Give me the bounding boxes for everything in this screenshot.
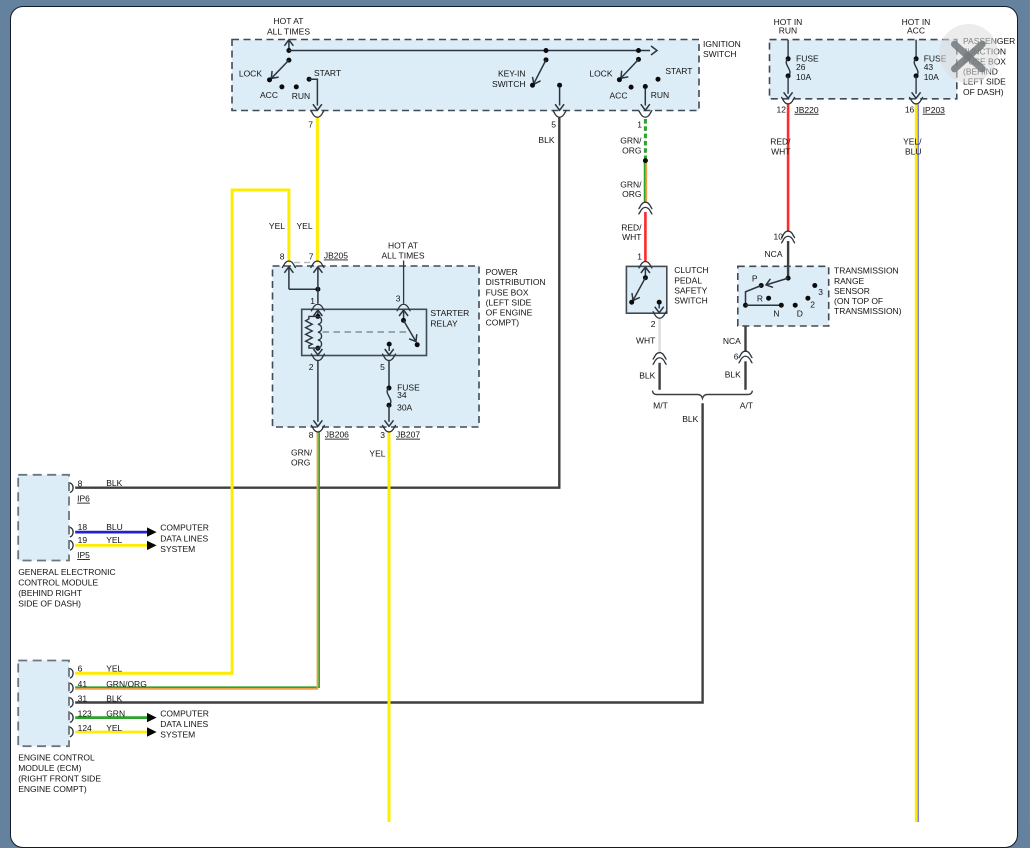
svg-text:YEL: YEL [106, 723, 122, 733]
svg-text:START: START [314, 68, 341, 78]
wire [787, 76, 789, 94]
junction dot at 788.1,58.8 [786, 56, 791, 61]
svg-text:SWITCH: SWITCH [703, 49, 737, 59]
wire [644, 268, 646, 278]
relay actuation dashed link [323, 331, 407, 333]
svg-text:RUN: RUN [292, 91, 310, 101]
svg-text:GRN/ORG: GRN/ORG [106, 679, 147, 689]
power distribution fuse box [273, 266, 480, 427]
close button [939, 24, 998, 83]
clutch pedal safety switch box [626, 266, 666, 313]
pin arc at 70.3,702.5 [70, 698, 73, 708]
wire BLK ignition pin5 to GECM pin8 [75, 118, 559, 488]
junction dot at 389,405.2 [387, 403, 392, 408]
svg-text:3: 3 [818, 287, 823, 297]
svg-text:A/T: A/T [740, 401, 753, 411]
contact ACC2 [629, 85, 634, 90]
arrowhead at 317.9,266.8 [313, 267, 322, 273]
wire RED/WHT connector to clutch pin1 [644, 212, 647, 261]
svg-text:(BEHIND RIGHT: (BEHIND RIGHT [18, 588, 82, 598]
svg-text:IP6: IP6 [77, 494, 90, 504]
wire [767, 278, 788, 285]
wire [403, 311, 405, 321]
svg-text:8: 8 [309, 430, 314, 440]
pin 8 connector JB205 [282, 261, 295, 268]
svg-text:ORG: ORG [622, 189, 641, 199]
wire join pin8 to pin7 line [289, 288, 318, 290]
arrowhead at 788.1,98.3 [784, 92, 793, 98]
svg-text:JB220: JB220 [795, 105, 819, 115]
arrowhead at 645.4,267 [641, 267, 650, 273]
svg-text:COMPUTER: COMPUTER [160, 709, 209, 719]
wire YEL ECM pin124 [75, 731, 147, 734]
arrowhead at 317.4,110.2 [313, 104, 322, 110]
inline connector GRN-RED [639, 202, 652, 214]
svg-text:N: N [773, 309, 779, 319]
arrowhead at 657,50.5 [651, 46, 657, 55]
contact R [766, 296, 771, 301]
svg-text:(ON TOP OF: (ON TOP OF [834, 296, 883, 306]
wire [288, 268, 290, 290]
svg-text:RELAY: RELAY [430, 318, 458, 328]
inline connector WHT-BLK [653, 353, 666, 365]
svg-text:RUN: RUN [779, 25, 797, 35]
arrowhead at 317.9,426.3 [313, 420, 322, 426]
junction dot at 532.5,85.2 [530, 83, 535, 88]
wire [317, 268, 319, 304]
junction dot GRN/ORG [643, 158, 648, 163]
wire NCA TRS connector [787, 241, 789, 278]
junction dot at 631.7,302.2 [629, 300, 634, 305]
svg-text:BLK: BLK [639, 371, 655, 381]
fuse element at 788.1,58.8 [786, 59, 790, 76]
relay pin 3 connector [397, 304, 410, 311]
svg-text:BLK: BLK [106, 478, 122, 488]
svg-text:D: D [797, 309, 803, 319]
svg-text:ALL TIMES: ALL TIMES [267, 26, 310, 36]
svg-text:GRN: GRN [106, 709, 125, 719]
svg-text:43: 43 [924, 62, 934, 72]
wire [318, 316, 322, 348]
svg-text:HOT AT: HOT AT [388, 240, 418, 250]
wire [75, 432, 317, 689]
wire BLK TRS to brace AT [744, 361, 746, 390]
wire [306, 316, 318, 348]
svg-text:ENGINE CONTROL: ENGINE CONTROL [18, 752, 95, 762]
contact 2 [805, 296, 810, 301]
svg-text:18: 18 [78, 522, 88, 532]
svg-text:YEL/: YEL/ [903, 136, 922, 146]
pin 1 connector [639, 261, 652, 268]
svg-text:GRN/: GRN/ [620, 179, 642, 189]
wire [645, 161, 647, 203]
wire [388, 405, 390, 422]
svg-text:COMPT): COMPT) [486, 318, 520, 328]
svg-text:ORG: ORG [622, 146, 641, 156]
svg-text:1: 1 [637, 252, 642, 262]
wire [634, 278, 646, 300]
contact RUN [294, 84, 299, 89]
wire [644, 89, 646, 106]
ignition switch box [232, 40, 699, 111]
svg-text:31: 31 [78, 694, 88, 704]
svg-text:WHT: WHT [771, 146, 790, 156]
svg-text:123: 123 [78, 709, 92, 719]
pin arc at 70.3,732 [70, 727, 73, 737]
wire [658, 304, 660, 309]
svg-text:2: 2 [651, 319, 656, 329]
svg-text:2: 2 [810, 300, 815, 310]
wire [388, 346, 390, 351]
svg-text:RUN: RUN [651, 90, 669, 100]
arrowhead at 317.9,355 [313, 349, 322, 355]
svg-text:7: 7 [309, 252, 314, 262]
svg-text:FUSE BOX: FUSE BOX [486, 287, 529, 297]
wire [404, 320, 416, 340]
arrowhead at 533.9,84.2 [530, 77, 541, 86]
junction dot at 916.1,58.8 [914, 56, 919, 61]
relay output contact [387, 342, 392, 347]
arrowhead at 416,341.6 [409, 334, 420, 344]
wire YEL GECM pin19 [75, 544, 147, 547]
close button X stroke 2 [955, 44, 983, 69]
svg-text:BLK: BLK [725, 370, 741, 380]
pin arc at 70.3,717.6 [70, 713, 73, 723]
svg-text:3: 3 [380, 430, 385, 440]
svg-text:LOCK: LOCK [589, 69, 612, 79]
arrowhead at 659.2,312.7 [655, 307, 664, 313]
svg-text:8: 8 [78, 479, 83, 489]
svg-text:TRANSMISSION): TRANSMISSION) [834, 306, 902, 316]
contact LOCK2 [617, 77, 622, 82]
svg-text:OF DASH): OF DASH) [963, 87, 1004, 97]
arrowhead at 620.9,78.2 [618, 71, 629, 82]
svg-text:YEL: YEL [369, 449, 385, 459]
junction dot at 645.4,277.7 [643, 275, 648, 280]
pin 2 connector [653, 312, 666, 319]
junction dot at 638.5,59.4 [636, 57, 641, 62]
contact LOCK [267, 77, 272, 82]
svg-text:26: 26 [796, 62, 806, 72]
svg-text:ACC: ACC [610, 90, 628, 100]
wire [559, 87, 561, 106]
svg-text:5: 5 [380, 362, 385, 372]
svg-text:BLK: BLK [538, 135, 554, 145]
connector tie dashes [294, 262, 312, 264]
pin 8 arc [70, 483, 73, 493]
svg-text:P: P [752, 274, 758, 284]
pin 8 JB206 connector [311, 425, 324, 432]
svg-text:BLK: BLK [106, 694, 122, 704]
svg-text:CLUTCH: CLUTCH [674, 265, 708, 275]
svg-text:34: 34 [397, 390, 407, 400]
svg-text:GRN/: GRN/ [291, 448, 313, 458]
svg-text:CONTROL MODULE: CONTROL MODULE [18, 577, 98, 587]
svg-text:YEL: YEL [269, 221, 285, 231]
arrowhead at 766,284.9 [765, 279, 773, 289]
junction dot at 288.9,50.5 [286, 48, 291, 53]
wire YEL/BLU IP203 down [915, 104, 918, 822]
fuse 26 [787, 40, 789, 59]
wire [317, 361, 319, 422]
arrowhead at 633,300.5 [629, 293, 640, 303]
svg-text:10A: 10A [924, 72, 939, 82]
relay pin 1 connector [311, 304, 324, 311]
wire RED/WHT JB220 down [787, 104, 790, 232]
svg-text:41: 41 [78, 679, 88, 689]
wire [272, 60, 289, 78]
junction dot at 317.9,348.1 [315, 346, 320, 351]
wire [388, 361, 390, 388]
junction dot at 659.2,302.2 [657, 300, 662, 305]
contact ACC [279, 84, 284, 89]
wire [622, 59, 639, 77]
pin 5 connector [553, 111, 566, 118]
key-in switch [544, 48, 549, 53]
node top feed [288, 41, 290, 51]
svg-text:IP203: IP203 [923, 105, 945, 115]
svg-text:PEDAL: PEDAL [674, 275, 702, 285]
wire NCA TRS pin6 [744, 326, 746, 352]
svg-text:DATA LINES: DATA LINES [160, 533, 208, 543]
svg-text:LOCK: LOCK [239, 69, 262, 79]
contact START2 [656, 77, 661, 82]
arrow computer data lines 4 [147, 727, 157, 736]
arrow computer data lines 3 [147, 713, 157, 722]
passenger junction fuse box [770, 40, 957, 99]
contact N [779, 303, 784, 308]
arrowhead at 403.6,310 [399, 310, 408, 316]
arrowhead at 271.3,78.4 [268, 71, 279, 82]
svg-text:3: 3 [396, 294, 401, 304]
svg-text:30A: 30A [397, 402, 412, 412]
svg-text:YEL: YEL [106, 535, 122, 545]
svg-text:BLK: BLK [682, 414, 698, 424]
svg-text:8: 8 [280, 252, 285, 262]
switch3 lever [636, 48, 641, 53]
svg-text:YEL: YEL [297, 221, 313, 231]
wire YEL ignition pin7 to JB205 pin7 [316, 118, 319, 263]
svg-text:2: 2 [309, 362, 314, 372]
wire GRN/ORG JB206 to ECM pin41 [75, 432, 319, 687]
pin 3 JB207 connector [383, 425, 396, 432]
svg-text:NCA: NCA [723, 336, 741, 346]
svg-text:BLU: BLU [106, 522, 123, 532]
HOT AT ALL TIMES feed to relay pin 3 [403, 261, 405, 304]
svg-text:WHT: WHT [636, 336, 655, 346]
svg-text:5: 5 [551, 119, 556, 129]
pin arc at 70.3,673.3 [70, 669, 73, 679]
wire GRN/ORG junction to connector [644, 161, 646, 203]
svg-text:START: START [665, 66, 692, 76]
svg-text:1: 1 [310, 296, 315, 306]
wire BLU GECM pin18 [75, 531, 147, 534]
svg-text:DISTRIBUTION: DISTRIBUTION [486, 277, 546, 287]
svg-text:MODULE (ECM): MODULE (ECM) [18, 763, 81, 773]
svg-text:BLU: BLU [905, 146, 922, 156]
svg-text:RANGE: RANGE [834, 276, 865, 286]
svg-text:(RIGHT FRONT SIDE: (RIGHT FRONT SIDE [18, 773, 101, 783]
wire [746, 286, 762, 306]
pin arc at 70.3,688 [70, 683, 73, 693]
svg-text:10: 10 [774, 232, 784, 242]
pin 1 connector [639, 111, 652, 118]
wire [915, 76, 917, 94]
svg-text:ALL TIMES: ALL TIMES [382, 250, 425, 260]
wire [317, 311, 319, 317]
svg-text:HOT AT: HOT AT [274, 16, 304, 26]
wire YEL JB207 down offpage [388, 432, 391, 822]
arrowhead at 916.1,98.3 [912, 92, 921, 98]
svg-text:OF ENGINE: OF ENGINE [486, 308, 533, 318]
junction dot at 389,388 [387, 386, 392, 391]
svg-text:SENSOR: SENSOR [834, 286, 870, 296]
wire bus to right [289, 50, 650, 52]
svg-text:IGNITION: IGNITION [703, 39, 741, 49]
wire [746, 304, 782, 306]
relay pin 2 [317, 348, 319, 351]
wire BLK brace to ECM pin31 [75, 403, 702, 702]
contact D [793, 303, 798, 308]
svg-text:12: 12 [777, 105, 787, 115]
wire BLK clutch to brace MT [658, 363, 660, 390]
svg-text:SAFETY: SAFETY [674, 286, 707, 296]
svg-text:GRN/: GRN/ [620, 136, 642, 146]
arrow computer data lines 1 [147, 527, 157, 536]
svg-text:1: 1 [637, 119, 642, 129]
GECM box [18, 475, 69, 561]
svg-text:ENGINE COMPT): ENGINE COMPT) [18, 784, 87, 794]
svg-text:JB207: JB207 [396, 430, 420, 440]
pin connector at 317.9,356.3 [311, 354, 324, 361]
relay coil [315, 314, 320, 319]
svg-text:COMPUTER: COMPUTER [160, 523, 209, 533]
arrow computer data lines 2 [147, 541, 157, 550]
relay pin 5 and fuse 34 [383, 354, 396, 361]
starter relay box [302, 309, 427, 355]
svg-text:ACC: ACC [260, 90, 278, 100]
contact P [759, 283, 764, 288]
svg-text:SWITCH: SWITCH [492, 79, 526, 89]
junction dot at 317.9,289.2 [315, 287, 320, 292]
svg-text:POWER: POWER [486, 267, 518, 277]
svg-text:JB205: JB205 [324, 251, 348, 261]
svg-text:124: 124 [78, 723, 92, 733]
wire [309, 79, 317, 105]
wire [534, 60, 547, 84]
pin 7 connector [311, 111, 324, 118]
pin 18 arc [70, 527, 73, 537]
junction dot at 745.5,305.2 [743, 303, 748, 308]
pin connector at 788.1,99.7 [782, 97, 795, 104]
svg-text:ACC: ACC [907, 25, 925, 35]
svg-text:DATA LINES: DATA LINES [160, 719, 208, 729]
svg-text:M/T: M/T [653, 401, 668, 411]
wire YEL ECM pin6 up to JB205 pin8 [75, 190, 289, 673]
switch1 lever [286, 58, 291, 63]
pin connector at 916.1,99.7 [910, 97, 923, 104]
contact RUN2 to pin1 [643, 84, 648, 89]
contact START to pin7 [307, 77, 312, 82]
junction dot at 916.1,75.9 [914, 73, 919, 78]
svg-text:KEY-IN: KEY-IN [498, 68, 526, 78]
svg-text:GENERAL ELECTRONIC: GENERAL ELECTRONIC [18, 567, 115, 577]
arrowhead at 317.9,310 [313, 310, 322, 316]
junction dot at 417.2,344.7 [415, 342, 420, 347]
svg-text:6: 6 [78, 664, 83, 674]
wire WHT clutch pin2 [658, 318, 661, 353]
common node [786, 276, 791, 281]
svg-text:16: 16 [905, 105, 915, 115]
transmission range sensor box [738, 266, 829, 326]
wire GRN ECM pin123 [75, 716, 147, 719]
svg-text:SWITCH: SWITCH [674, 296, 708, 306]
arrowhead at 389.2,355 [385, 349, 394, 355]
svg-text:6: 6 [734, 352, 739, 362]
svg-text:RED/: RED/ [770, 136, 791, 146]
wire GRN dashed ignition pin1 [644, 119, 647, 161]
wire [917, 104, 919, 822]
svg-text:R: R [757, 294, 763, 304]
close button X stroke 1 [955, 44, 983, 69]
contact keyin out to pin5 [557, 83, 562, 88]
svg-text:YEL: YEL [106, 664, 122, 674]
svg-text:SYSTEM: SYSTEM [160, 544, 195, 554]
svg-text:SIDE OF DASH): SIDE OF DASH) [18, 598, 81, 608]
fuse 43 [915, 40, 917, 59]
pin 7 connector JB205 [311, 261, 324, 268]
svg-text:NCA: NCA [765, 249, 783, 259]
junction dot at 788.1,75.9 [786, 73, 791, 78]
svg-text:19: 19 [78, 535, 88, 545]
svg-text:10A: 10A [796, 72, 811, 82]
inline connector pin6 [739, 351, 752, 363]
arrowhead at 288.9,39.8 [284, 40, 293, 46]
pin 19 arc [70, 541, 73, 551]
svg-text:SYSTEM: SYSTEM [160, 730, 195, 740]
svg-text:(LEFT SIDE: (LEFT SIDE [486, 297, 532, 307]
svg-text:IP5: IP5 [77, 550, 90, 560]
svg-text:JB206: JB206 [325, 430, 349, 440]
svg-text:STARTER: STARTER [430, 308, 469, 318]
svg-text:TRANSMISSION: TRANSMISSION [834, 266, 899, 276]
svg-text:RED/: RED/ [621, 222, 642, 232]
entry arrows [284, 267, 293, 273]
svg-text:7: 7 [308, 119, 313, 129]
relay switch [401, 318, 406, 323]
brace MT AT [652, 391, 752, 399]
svg-text:ORG: ORG [291, 458, 310, 468]
arrowhead at 559.6,110.2 [555, 104, 564, 110]
arrowhead at 645.3,110.2 [641, 104, 650, 110]
inline connector pin10 [782, 231, 795, 243]
junction dot at 546,59.9 [544, 57, 549, 62]
fuse element at 916.1,58.8 [914, 59, 918, 76]
contact 3 [812, 283, 817, 288]
fuse element at 389,388 [387, 388, 391, 405]
svg-text:WHT: WHT [622, 232, 641, 242]
arrowhead at 389,426.3 [385, 420, 394, 426]
ECM box [18, 661, 69, 747]
